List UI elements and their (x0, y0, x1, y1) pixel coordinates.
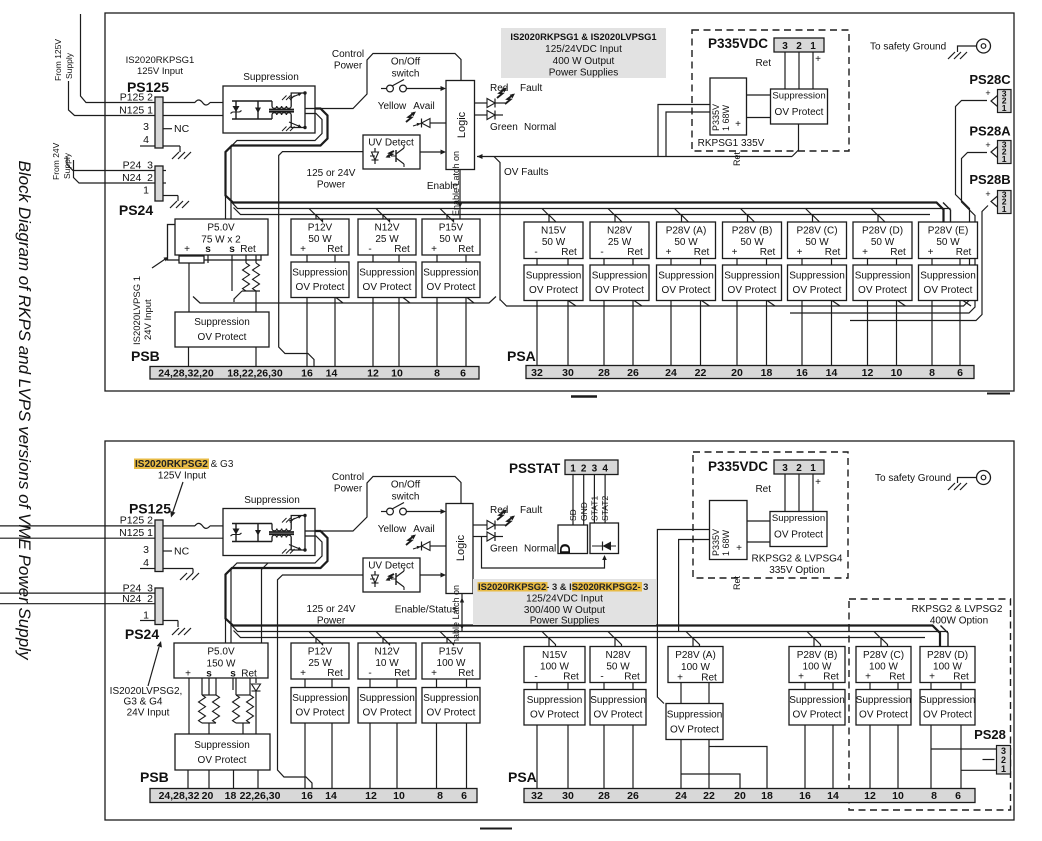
wire enable status double arrow (461, 594, 463, 632)
wire N12V pins (372, 255, 374, 262)
svg-text:OV Protect: OV Protect (427, 708, 476, 719)
svg-text:Green: Green (490, 122, 518, 133)
module P28V A special (668, 647, 723, 683)
ground PS24 bottom (172, 628, 179, 635)
svg-text:N12V: N12V (374, 223, 399, 234)
svg-text:Suppression: Suppression (855, 271, 911, 282)
svg-text:Normal: Normal (524, 122, 556, 133)
wire N15V pins (536, 683, 538, 690)
wire bus line 3 (234, 208, 931, 215)
wire 24V input from edge P24 (0, 592, 155, 594)
ground PS125 (172, 152, 179, 159)
connector PS24 (155, 166, 163, 201)
wire + to supp bottom (188, 678, 190, 734)
suppression OV protect P335V bottom (770, 512, 827, 547)
wire pin3 NC (163, 128, 172, 130)
LED red bottom (473, 524, 487, 526)
wire P28V (B) outputs to bus bar (736, 301, 738, 366)
svg-text:125 or 24V: 125 or 24V (307, 604, 356, 615)
module P5.0V rear box (168, 225, 262, 261)
svg-text:Power: Power (334, 484, 363, 495)
suppression OV protect N15V (524, 265, 583, 301)
wire s stubs (207, 255, 209, 263)
svg-text:s: s (205, 244, 211, 255)
svg-text:P28V (C): P28V (C) (796, 226, 837, 237)
svg-text:OV Protect: OV Protect (296, 282, 345, 293)
wire P5 feed bottom (262, 563, 269, 643)
svg-text:Suppression: Suppression (667, 710, 723, 721)
wire power channel inner bottom (231, 536, 948, 632)
svg-text:To safety Ground: To safety Ground (875, 473, 951, 484)
svg-text:Suppression: Suppression (359, 693, 415, 704)
svg-text:12: 12 (864, 790, 876, 802)
connector PS28C (998, 90, 1012, 113)
wire P12V power stubs (309, 209, 316, 220)
wire control power bottom (315, 477, 461, 532)
svg-text:To safety Ground: To safety Ground (870, 42, 946, 53)
resistor R4 (215, 678, 217, 695)
svg-text:4: 4 (143, 557, 149, 569)
svg-text:Green: Green (490, 544, 518, 555)
svg-text:P28V (A): P28V (A) (675, 650, 716, 661)
wire P28V (C) pins (869, 683, 871, 690)
svg-text:26: 26 (627, 790, 639, 802)
svg-text:16: 16 (301, 368, 313, 380)
wire P28V (C) outputs to bus bar (801, 301, 803, 366)
svg-text:+: + (815, 54, 821, 65)
svg-text:2: 2 (581, 464, 587, 475)
wire P28V (B) pins (804, 683, 806, 690)
svg-text:Suppression: Suppression (292, 693, 348, 704)
svg-text:Suppression: Suppression (244, 495, 300, 506)
svg-text:STAT1: STAT1 (590, 496, 600, 521)
svg-text:+: + (732, 247, 738, 258)
suppression OV protect P28V (D) (853, 265, 912, 301)
resistor R1 (245, 255, 247, 263)
suppression OV protect P28V (E) (919, 265, 978, 301)
svg-text:Supply: Supply (62, 152, 72, 179)
wire rail2 to PS28A (790, 153, 987, 314)
svg-text:1: 1 (1002, 103, 1007, 113)
converter V533P box (710, 78, 747, 135)
svg-text:Ret: Ret (394, 244, 410, 255)
svg-text:Suppression: Suppression (194, 317, 250, 328)
connector PS24 bottom (155, 588, 163, 625)
diode D1 (255, 678, 257, 683)
wire channel into P5 top bottom (225, 619, 227, 643)
svg-text:s: s (206, 669, 212, 680)
module P28V (A) (657, 222, 716, 259)
svg-text:1: 1 (810, 463, 816, 474)
svg-text:Ret: Ret (240, 244, 256, 255)
svg-text:PSB: PSB (140, 769, 169, 785)
module N15V (524, 647, 585, 683)
svg-text:PS28: PS28 (974, 727, 1006, 742)
wire N15V outputs to bus bar (536, 725, 538, 789)
wire N12V pins (369, 679, 371, 688)
wire OV stub diagonals PSB (336, 298, 343, 304)
svg-text:2: 2 (796, 41, 802, 52)
svg-text:Yellow: Yellow (378, 101, 407, 112)
svg-text:N28V: N28V (607, 226, 632, 237)
wire pin1 ground (163, 195, 178, 197)
svg-text:24,28,32,20: 24,28,32,20 (158, 368, 214, 380)
svg-text:P28V (A): P28V (A) (666, 226, 707, 237)
wire LED yellow to logic (430, 122, 446, 124)
svg-text:Suppression: Suppression (772, 513, 825, 524)
wire P5 suppression outputs (188, 347, 190, 367)
wire N15V power stubs (542, 632, 549, 647)
wire UV detect to logic bottom (420, 574, 441, 576)
wire logic to P335V converter (658, 105, 710, 157)
wire tap s1 (208, 678, 210, 695)
svg-text:Ret: Ret (889, 672, 905, 683)
svg-text:18: 18 (761, 367, 773, 379)
LED green (475, 114, 488, 116)
suppression OV protect P335V (771, 89, 828, 124)
svg-text:+: + (797, 247, 803, 258)
svg-text:+: + (928, 247, 934, 258)
leader arrow to PS24 (148, 647, 159, 686)
wire P28V (A) power stubs (675, 209, 682, 223)
svg-text:Ret: Ret (327, 668, 343, 679)
svg-text:Avail: Avail (413, 101, 435, 112)
svg-text:335V Option: 335V Option (769, 565, 825, 576)
svg-text:Suppression: Suppression (423, 693, 479, 704)
svg-text:IS2020RKPSG1: IS2020RKPSG1 (126, 55, 195, 66)
wire OV faults branch down (494, 157, 500, 301)
suppression OV protect P28V (B) (723, 265, 782, 301)
svg-text:PS28B: PS28B (969, 172, 1010, 187)
bus bar PSA (526, 366, 974, 379)
wire P12V pins (306, 255, 308, 262)
resistor R3 (201, 678, 203, 695)
svg-text:OV Protect: OV Protect (662, 285, 711, 296)
wire P28V (D) pins (867, 259, 869, 266)
svg-text:16: 16 (796, 367, 808, 379)
wire N28V pins (603, 259, 605, 266)
option dashed box 400W (849, 599, 1011, 810)
wire P28V (E) outputs to bus bar (931, 301, 933, 366)
svg-text:Ret: Ret (890, 247, 906, 258)
connector PS28 (997, 746, 1011, 775)
wire P12V outputs to bus bar (306, 298, 308, 367)
svg-text:1: 1 (810, 41, 816, 52)
svg-text:22: 22 (703, 790, 715, 802)
suppression OV protect N28V (590, 690, 646, 726)
svg-text:Ret: Ret (823, 672, 839, 683)
wire P5 outputs bottom (187, 770, 189, 789)
wire P125 to suppression (163, 102, 195, 104)
svg-text:OV Protect: OV Protect (670, 725, 719, 736)
wire P28V (A) pins (670, 259, 672, 266)
svg-text:+: + (985, 140, 990, 150)
svg-text:Ret: Ret (953, 672, 969, 683)
svg-text:P28V (B): P28V (B) (732, 226, 773, 237)
svg-text:Ret: Ret (561, 247, 577, 258)
svg-text:28: 28 (598, 790, 610, 802)
terminal block (179, 256, 204, 263)
svg-text:14: 14 (827, 790, 839, 802)
svg-text:Ret: Ret (327, 244, 343, 255)
module P28V (B) (789, 647, 845, 683)
svg-text:+: + (862, 247, 868, 258)
wires PSSTAT pins (572, 475, 574, 526)
svg-text:14: 14 (326, 368, 338, 380)
wire N125 to suppression (163, 115, 223, 117)
bus bar PSB bottom (150, 789, 477, 803)
svg-text:+: + (677, 673, 683, 684)
svg-text:switch: switch (392, 69, 420, 80)
module P12V (291, 643, 349, 679)
svg-text:24,28,32: 24,28,32 (159, 790, 200, 802)
wire tap s2 (232, 678, 234, 690)
svg-text:Ret: Ret (241, 669, 257, 680)
wire 125V input from edge P125 (0, 525, 155, 527)
UV Detect box bottom (363, 558, 420, 592)
svg-text:Ret: Ret (825, 247, 841, 258)
svg-text:P5.0V: P5.0V (207, 647, 235, 658)
LED yellow bottom (406, 536, 415, 546)
wire P28V (D) outputs to bus bar (867, 301, 869, 366)
wire N12V power stubs (376, 209, 383, 220)
resistor R5 (235, 678, 237, 695)
wire bus line 3 bottom (234, 631, 926, 638)
wire 24V input from edge N24 (0, 603, 155, 605)
svg-text:OV Protect: OV Protect (858, 285, 907, 296)
suppression box input bottom (223, 509, 315, 556)
wire power to UV detect and P5 (279, 152, 363, 367)
switch symbol bottom (381, 511, 387, 513)
svg-text:+: + (929, 672, 935, 683)
svg-text:Power: Power (317, 616, 346, 627)
svg-text:SD: SD (568, 509, 578, 521)
svg-text:From 24V: From 24V (51, 142, 61, 180)
wire from 24V supply to P24 (67, 157, 155, 171)
wire V533P to bus (679, 540, 710, 632)
wire P15V outputs to bus bar (436, 298, 438, 367)
wire P28V (B) power stubs (741, 209, 748, 223)
wire power channel bold bottom (226, 531, 941, 647)
svg-text:125/24VDC Input: 125/24VDC Input (545, 44, 622, 55)
suppression box input (223, 86, 315, 133)
svg-text:22,26,30: 22,26,30 (240, 790, 281, 802)
svg-text:+: + (300, 668, 306, 679)
svg-text:OV Protect: OV Protect (924, 285, 973, 296)
svg-text:OV Protect: OV Protect (363, 708, 412, 719)
svg-text:IS2020LVPSG2,: IS2020LVPSG2, (110, 686, 183, 697)
wire pin4 ground (140, 145, 155, 147)
wire N28V outputs to bus bar (603, 301, 605, 366)
wire P28V (B) pins (736, 259, 738, 266)
svg-text:Yellow: Yellow (378, 524, 407, 535)
svg-text:Suppression: Suppression (527, 695, 583, 706)
switch symbol (381, 88, 387, 90)
wire switch to logic (407, 88, 442, 90)
svg-text:OV Protect: OV Protect (363, 282, 412, 293)
wires header to suppression (784, 52, 786, 89)
svg-text:On/Off: On/Off (391, 57, 420, 68)
wire OV faults to logic (477, 156, 792, 158)
wire power channel inner (231, 114, 951, 209)
connector PS28B (998, 191, 1012, 214)
P335VDC dashed box (692, 30, 849, 151)
svg-text:10: 10 (891, 367, 903, 379)
svg-text:OV Protect: OV Protect (595, 285, 644, 296)
svg-text:+: + (185, 669, 191, 680)
suppression OV protect P12V (291, 688, 349, 724)
svg-text:1 68W: 1 68W (721, 529, 731, 556)
wire rail3 to PS28B (850, 206, 988, 321)
wire P12V power stubs (309, 632, 316, 644)
svg-text:125/24VDC Input: 125/24VDC Input (526, 594, 603, 605)
svg-text:P12V: P12V (308, 223, 333, 234)
wire bus bold to D right stub (941, 626, 949, 647)
wire UV detect to logic (420, 151, 441, 153)
svg-text:+: + (184, 244, 190, 255)
svg-text:Ret: Ret (694, 247, 710, 258)
info box IS2020RKPSG1 (501, 28, 666, 78)
svg-text:14: 14 (325, 790, 337, 802)
wire status feed from green LED (482, 537, 605, 569)
svg-text:UV Detect: UV Detect (368, 138, 414, 149)
wire channel into P5 top (225, 196, 227, 219)
svg-text:P12V: P12V (308, 647, 333, 658)
svg-text:Ret: Ret (624, 672, 640, 683)
svg-text:NC: NC (174, 123, 190, 135)
svg-text:+: + (431, 244, 437, 255)
connector PS28A (998, 141, 1012, 164)
suppression OV protect P5 bottom (175, 734, 270, 770)
svg-text:switch: switch (392, 492, 420, 503)
svg-text:OV Protect: OV Protect (775, 107, 824, 118)
svg-text:P28V (D): P28V (D) (927, 650, 968, 661)
suppression OV protect N12V (358, 688, 416, 724)
svg-text:18,22,26,30: 18,22,26,30 (227, 368, 283, 380)
svg-text:6: 6 (460, 368, 466, 380)
svg-text:Ret: Ret (563, 672, 579, 683)
top diagram outer border (105, 13, 1014, 391)
connector PSSTAT header (565, 460, 618, 475)
svg-text:RKPSG1 335V: RKPSG1 335V (698, 138, 765, 149)
svg-text:OV Protect: OV Protect (923, 710, 972, 721)
svg-text:10: 10 (892, 790, 904, 802)
svg-text:400 W Output: 400 W Output (553, 56, 615, 67)
svg-text:Enable: Enable (427, 181, 459, 192)
wire pin3 NC bottom (163, 550, 172, 552)
svg-text:Suppression: Suppression (920, 695, 976, 706)
wire P125 to suppression bottom (195, 523, 210, 528)
wire P15V power stubs (440, 632, 447, 644)
wire P24 stub (163, 170, 166, 172)
svg-text:1: 1 (143, 610, 149, 622)
diode in STAT box (592, 545, 616, 547)
wire N28V outputs to bus bar (603, 725, 605, 789)
svg-text:+: + (666, 247, 672, 258)
svg-text:4: 4 (602, 464, 608, 475)
suppression OV protect P28V (B) (789, 690, 845, 726)
svg-text:125 or 24V: 125 or 24V (307, 168, 356, 179)
svg-text:Suppression: Suppression (359, 268, 415, 279)
module P28V (C) (856, 647, 911, 683)
svg-text:P335VDC: P335VDC (708, 459, 768, 474)
svg-text:P28V (B): P28V (B) (797, 650, 838, 661)
svg-text:-: - (534, 672, 537, 683)
bottom tick mark (480, 828, 512, 830)
svg-text:P24 3: P24 3 (123, 160, 154, 172)
wire N28V power stubs (608, 209, 615, 223)
border tick mark (987, 393, 1010, 395)
svg-text:UV Detect: UV Detect (368, 561, 414, 572)
wire P28V (B) power stubs (807, 632, 814, 647)
status box SD/GND (558, 525, 588, 554)
LED yellow (406, 113, 415, 123)
module P5.0V bottom (174, 643, 268, 678)
svg-text:3: 3 (592, 464, 598, 475)
svg-text:N15V: N15V (541, 226, 566, 237)
svg-text:NC: NC (174, 546, 190, 558)
svg-text:3: 3 (782, 463, 788, 474)
svg-text:16: 16 (301, 790, 313, 802)
wire P28V (D) pins (930, 683, 932, 690)
svg-text:P5.0V: P5.0V (207, 223, 235, 234)
svg-text:Ret: Ret (732, 575, 742, 590)
svg-text:OV Protect: OV Protect (296, 708, 345, 719)
wire P28V (A) outputs to bus bar (670, 301, 672, 366)
svg-text:Suppression: Suppression (772, 91, 825, 102)
svg-text:Fault: Fault (520, 83, 542, 94)
svg-text:+: + (865, 672, 871, 683)
svg-text:RKPSG2 & LVPSG4: RKPSG2 & LVPSG4 (752, 554, 843, 565)
ground PS24 (170, 201, 177, 208)
svg-text:125V Input: 125V Input (158, 471, 207, 482)
svg-text:Power Supplies: Power Supplies (549, 68, 618, 79)
safety ground symbol (977, 39, 991, 53)
suppression OV protect N15V (524, 690, 585, 726)
suppression OV protect P12V (291, 262, 349, 298)
svg-text:24: 24 (665, 367, 677, 379)
module P5.0V (175, 219, 268, 255)
module P28V (E) (919, 222, 978, 259)
svg-text:PS28A: PS28A (969, 124, 1011, 139)
svg-text:1: 1 (143, 185, 149, 197)
svg-text:Avail: Avail (413, 524, 435, 535)
svg-text:Suppression: Suppression (920, 271, 976, 282)
wire P28V (D) outputs to bus bar (930, 725, 932, 789)
leader arrow to PS125 (173, 482, 184, 513)
svg-text:-: - (368, 244, 371, 255)
svg-text:16: 16 (799, 790, 811, 802)
svg-text:-: - (368, 668, 371, 679)
svg-text:32: 32 (531, 790, 543, 802)
svg-text:Suppression: Suppression (243, 72, 299, 83)
module P28V (C) (788, 222, 847, 259)
wire N15V pins (536, 259, 538, 266)
wire pin4 ground bottom (140, 568, 155, 570)
svg-text:Suppression: Suppression (789, 271, 845, 282)
svg-text:3: 3 (143, 544, 149, 556)
svg-text:Power Supplies: Power Supplies (530, 616, 599, 627)
wire bus bold to E right stub (943, 203, 951, 223)
svg-text:8: 8 (434, 368, 440, 380)
svg-text:Ret: Ret (394, 668, 410, 679)
module N15V (524, 222, 583, 259)
svg-text:Control: Control (332, 49, 364, 60)
svg-text:IS2020RKPSG2 & G3: IS2020RKPSG2 & G3 (135, 459, 234, 470)
wire P28V (C) outputs to bus bar (869, 725, 871, 789)
LED green bottom (473, 536, 487, 538)
svg-text:Ret: Ret (755, 484, 771, 495)
